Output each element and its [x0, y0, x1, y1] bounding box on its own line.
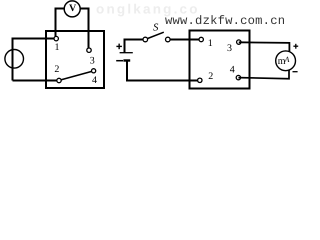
- wire terminal 4 to milliammeter bottom: [238, 70, 289, 79]
- battery positive lead: [125, 40, 144, 53]
- svg-text:2: 2: [208, 71, 213, 82]
- wire: source top to terminal 1: [13, 39, 57, 81]
- svg-text:4: 4: [92, 75, 97, 86]
- svg-text:www.dzkfw.com.cn: www.dzkfw.com.cn: [165, 14, 285, 28]
- battery + label: [116, 45, 122, 47]
- terminal 4 (right box): [236, 75, 240, 79]
- svg-text:V: V: [69, 3, 77, 14]
- terminal 3 (left box): [87, 48, 91, 52]
- voltmeter V: [64, 1, 80, 17]
- diagonal wire 2-4: [61, 71, 92, 80]
- battery negative lead to right box terminal 2: [127, 62, 200, 81]
- svg-text:A: A: [284, 55, 290, 64]
- svg-text:S: S: [153, 22, 159, 33]
- terminal 3 (right box): [237, 40, 241, 44]
- terminal 2 (left box): [57, 78, 61, 82]
- wire: source bottom to left box terminal 2: [13, 80, 60, 82]
- switch S: [143, 37, 148, 42]
- milliammeter - label: [293, 71, 298, 73]
- terminal 4 (left box): [92, 69, 96, 73]
- milliammeter mA: [276, 51, 296, 71]
- svg-text:3: 3: [90, 55, 95, 66]
- wire switch to right box terminal 1: [170, 39, 201, 41]
- terminal 2 (right box): [198, 78, 202, 82]
- svg-text:1: 1: [55, 42, 60, 53]
- source G (circle with line): [5, 50, 24, 69]
- svg-text:1: 1: [208, 38, 213, 49]
- voltmeter loop wires: [56, 9, 89, 51]
- wire terminal 3 to milliammeter top: [239, 42, 290, 52]
- battery plates: [120, 52, 133, 54]
- svg-text:3: 3: [227, 43, 232, 54]
- terminal 1 (right box): [199, 37, 203, 41]
- terminal 1 (left box): [54, 36, 58, 40]
- left box: [46, 31, 104, 88]
- right box: [190, 31, 250, 89]
- milliammeter + label: [293, 45, 298, 47]
- svg-text:2: 2: [54, 64, 59, 75]
- battery - label: [116, 60, 123, 62]
- svg-text:4: 4: [230, 65, 235, 76]
